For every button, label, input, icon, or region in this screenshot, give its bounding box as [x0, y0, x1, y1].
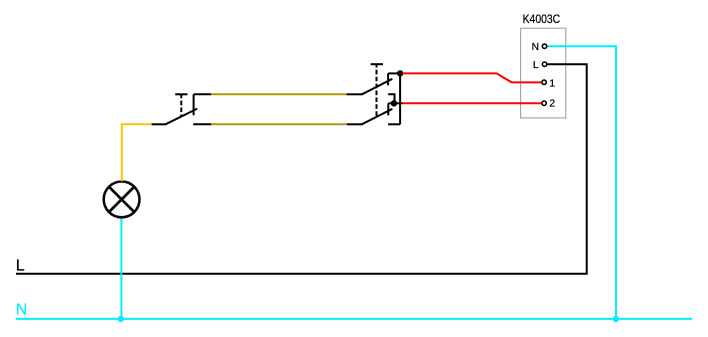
- switch S2 actuator T-cap: [371, 63, 383, 65]
- svg-text:L: L: [533, 60, 539, 71]
- junction dot S2 top common: [397, 70, 403, 76]
- switch S2 common vertical: [399, 73, 401, 124]
- wire lamp phase (amber): [122, 124, 152, 181]
- svg-text:N: N: [16, 302, 28, 319]
- switch S2 bottom blade: [362, 109, 392, 124]
- N rail: [16, 318, 692, 320]
- terminal L: [542, 62, 546, 66]
- terminal N: [542, 44, 546, 48]
- switch S1 contact bar: [193, 94, 195, 115]
- svg-text:L: L: [16, 258, 25, 275]
- switch S2 top blade: [362, 79, 392, 94]
- switch S2 top contact bar: [387, 73, 389, 85]
- wire red 1: [403, 73, 542, 82]
- terminal 2: [542, 101, 546, 105]
- svg-text:1: 1: [549, 78, 555, 89]
- switch S2 actuator dashed link: [376, 64, 378, 116]
- switch S1 bottom contact: [193, 123, 211, 125]
- switch S2 top lead: [347, 93, 362, 95]
- switch S1 lead: [152, 123, 166, 125]
- switch S2 bottom contact bar: [387, 103, 389, 115]
- junction dot N rail right: [613, 316, 619, 322]
- wire N (cyan) from terminal N to N rail: [548, 46, 617, 319]
- junction dot N rail left: [118, 316, 124, 322]
- traveler wire top (dark gold): [211, 93, 346, 95]
- wire red 2: [403, 102, 542, 104]
- switch S2 bottom lead: [347, 123, 362, 125]
- wire neutral lamp (cyan vertical): [120, 217, 122, 319]
- svg-text:2: 2: [549, 99, 555, 110]
- svg-text:K4003C: K4003C: [523, 13, 561, 26]
- traveler wire bottom (dark gold): [211, 123, 347, 125]
- switch S2 bracket: [388, 94, 394, 103]
- switch S1 blade: [166, 109, 197, 124]
- lamp E1: [104, 182, 140, 218]
- svg-text:N: N: [532, 42, 539, 53]
- terminal 1: [542, 80, 546, 84]
- junction dot S2 bottom output: [391, 100, 397, 106]
- switch S2 top corner: [388, 72, 400, 74]
- switch S1 actuator dashed link: [180, 94, 182, 116]
- switch S1 top contact: [194, 93, 212, 95]
- switch S1 actuator T-cap: [175, 93, 187, 95]
- switch S2 foot: [388, 123, 400, 125]
- device box K4003C: [521, 28, 566, 118]
- wire L (black) from terminal L down-around to L rail: [16, 64, 587, 274]
- switch S2 bottom output horizontal: [388, 102, 402, 104]
